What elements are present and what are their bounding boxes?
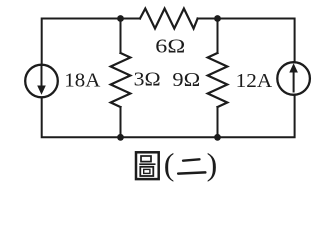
current source I1 arrow shaft (down) <box>41 66 43 87</box>
svg-text:18A: 18A <box>64 69 100 91</box>
wire: top rail right segment and right branch down to current source <box>198 19 295 63</box>
resistor R_3ohm zigzag (vertical) <box>111 53 131 107</box>
junction node: bottom of 9-ohm branch <box>214 134 221 141</box>
wire: 3-ohm branch lower stub <box>120 107 122 137</box>
svg-text:): ) <box>207 146 218 182</box>
svg-text:3Ω: 3Ω <box>134 69 161 91</box>
wire: 9-ohm branch upper stub <box>217 19 219 54</box>
current source I1 arrowhead (down) <box>37 86 46 95</box>
current source I2 arrowhead (up) <box>289 63 298 72</box>
resistor R_9ohm zigzag (vertical) <box>208 53 228 107</box>
junction node: top of 9-ohm branch <box>214 15 221 22</box>
junction node: bottom of 3-ohm branch <box>117 134 124 141</box>
resistor R_6ohm zigzag (horizontal, top rail) <box>140 9 198 29</box>
svg-text:(: ( <box>164 146 175 182</box>
current source I2 arrow shaft (up) <box>293 71 295 92</box>
junction node: top of 3-ohm branch <box>117 15 124 22</box>
svg-text:12A: 12A <box>236 70 273 92</box>
caption character ER (two) drawn as strokes <box>178 159 205 173</box>
wire: 9-ohm branch lower stub <box>217 107 219 137</box>
current source I1 circle (18A, left) <box>25 65 58 98</box>
caption character TU (figure) drawn as strokes <box>136 152 159 179</box>
svg-text:9Ω: 9Ω <box>172 69 200 91</box>
svg-text:6Ω: 6Ω <box>155 36 185 58</box>
wire: left branch top (current source to top rail, left segment of top rail) <box>42 19 140 65</box>
current source I2 circle (12A, right) <box>277 62 310 95</box>
wire: right branch below current source, bottom rail, left branch up to current source <box>42 95 295 137</box>
wire: 3-ohm branch upper stub <box>120 19 122 54</box>
